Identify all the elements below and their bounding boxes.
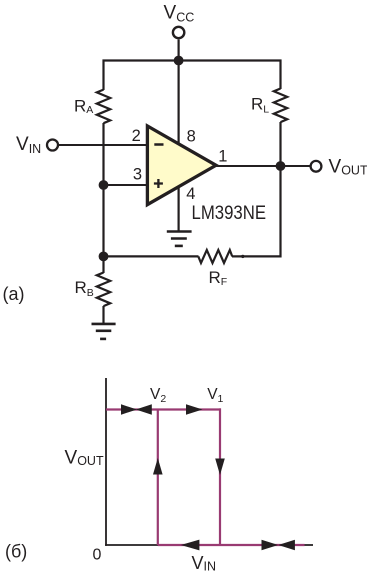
svg-text:3: 3 — [133, 165, 142, 183]
wire RB to ground — [102, 306, 104, 324]
wire left rail lower segment — [102, 123, 104, 258]
svg-text:(a): (a) — [3, 284, 25, 304]
terminal VIN — [47, 140, 58, 151]
svg-text:V1: V1 — [207, 386, 223, 405]
svg-text:0: 0 — [93, 547, 102, 564]
wire top rail — [103, 59, 282, 61]
hysteresis top line — [106, 408, 221, 410]
arrow right on top line — [121, 404, 137, 414]
svg-text:(б): (б) — [5, 542, 27, 562]
svg-text:RF: RF — [209, 268, 228, 288]
junction dot VCC on top rail — [174, 56, 184, 66]
svg-text:V2: V2 — [150, 386, 166, 405]
minus sign inverting input — [154, 143, 163, 146]
wire pin 4 — [178, 187, 180, 232]
arrow left on top line — [136, 404, 152, 414]
plus sign noninverting input — [154, 182, 163, 184]
resistor RB — [97, 273, 110, 307]
junction dot bottom left corner — [99, 252, 109, 262]
svg-text:VIN: VIN — [192, 553, 217, 574]
svg-text:2: 2 — [132, 127, 141, 145]
wire bottom rail right segment — [232, 255, 282, 257]
svg-text:RB: RB — [75, 278, 94, 299]
svg-text:VIN: VIN — [16, 134, 41, 156]
hysteresis V1 vertical line — [219, 408, 221, 545]
svg-text:VOUT: VOUT — [329, 156, 367, 177]
junction small dot on bottom rail — [241, 255, 244, 258]
svg-text:RL: RL — [251, 94, 269, 115]
wire pin 1 output — [215, 165, 310, 167]
arrow right on bottom line tail — [262, 540, 279, 550]
svg-text:VCC: VCC — [164, 2, 195, 24]
graph y-axis — [105, 378, 107, 546]
arrow up on V2 line — [153, 458, 163, 475]
terminal VOUT — [311, 161, 322, 172]
svg-text:LM393NE: LM393NE — [192, 203, 267, 224]
svg-text:8: 8 — [187, 127, 196, 145]
svg-text:4: 4 — [186, 185, 195, 203]
graph x-axis — [105, 544, 313, 546]
op-amp U1 LM393NE — [147, 126, 216, 205]
ground op-amp pin 4 — [167, 232, 192, 246]
wire pin 8 — [178, 61, 180, 146]
hysteresis bottom line — [158, 544, 305, 546]
terminal VCC — [173, 27, 184, 38]
wire right rail upper segment — [279, 60, 281, 90]
svg-text:VOUT: VOUT — [65, 448, 104, 469]
wire to RB — [102, 256, 104, 273]
junction dot output on right rail — [276, 161, 286, 171]
wire left rail upper segment — [102, 60, 104, 91]
arrow left on bottom line tail — [278, 540, 295, 550]
hysteresis V2 vertical line — [157, 410, 159, 546]
wire VIN to pin 2 — [59, 144, 148, 146]
ground RB — [92, 324, 116, 339]
resistor RL — [274, 89, 287, 123]
svg-text:1: 1 — [218, 147, 227, 165]
svg-text:RA: RA — [74, 97, 93, 116]
wire bottom rail left segment — [103, 255, 199, 257]
arrow down on V1 line — [215, 459, 225, 476]
junction dot node plus input — [99, 180, 109, 190]
arrow left on bottom line — [181, 540, 200, 551]
wire right rail lower segment — [279, 122, 281, 258]
resistor RF — [198, 250, 232, 263]
resistor RA — [97, 90, 110, 124]
wire node to pin 3 — [104, 184, 149, 186]
arrow right toward V1 on top line — [186, 404, 203, 414]
wire VCC to top rail — [178, 40, 180, 61]
